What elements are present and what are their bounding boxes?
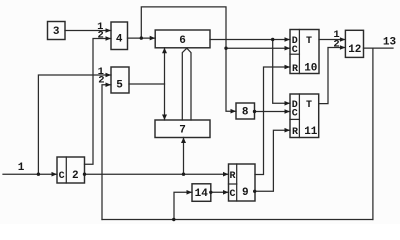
- wire A block6 output to block10 D: [210, 39, 290, 41]
- arrow into block4 in1: [106, 28, 112, 33]
- junction dot bottom wire: [172, 218, 175, 221]
- block 7: [155, 120, 210, 138]
- junction dot block8 out: [253, 110, 256, 113]
- block 2: [57, 157, 85, 183]
- svg-text:11: 11: [304, 126, 318, 138]
- svg-text:7: 7: [179, 124, 186, 136]
- wire block12 output 13: [364, 47, 394, 49]
- wire bottom branch to block14: [174, 192, 192, 219]
- svg-text:8: 8: [242, 107, 249, 119]
- wire block2 right top to block4 in2: [85, 39, 112, 165]
- wire A branch to block11 D: [273, 40, 290, 104]
- wire input1 to block5 in1: [38, 75, 111, 174]
- svg-text:5: 5: [116, 80, 123, 92]
- junction dot block2 out: [83, 173, 86, 176]
- svg-text:2: 2: [98, 74, 104, 86]
- wire B top tap to block10 C: [226, 47, 290, 49]
- block 10: [290, 30, 319, 74]
- wire bidirectional 6-7: [164, 48, 166, 120]
- arrow up into block7 bottom: [181, 138, 186, 144]
- arrow into block5 in1: [106, 73, 112, 78]
- block 9: [229, 164, 256, 201]
- arrow into block6 left: [150, 36, 156, 41]
- arrow into block2: [52, 172, 58, 177]
- wire block5 output to line 6-7: [129, 83, 165, 85]
- block 11: [290, 94, 319, 138]
- svg-text:6: 6: [179, 35, 186, 47]
- arrow up into block6 bottom: [162, 48, 167, 54]
- svg-text:13: 13: [383, 36, 397, 48]
- svg-text:2: 2: [98, 29, 104, 41]
- svg-text:4: 4: [116, 34, 123, 46]
- wire bottom feedback: [102, 219, 373, 221]
- svg-text:C: C: [292, 109, 298, 120]
- svg-text:2: 2: [333, 39, 339, 51]
- svg-text:14: 14: [195, 188, 209, 200]
- wire input 1: [3, 173, 57, 175]
- svg-text:R: R: [292, 64, 298, 75]
- wire block9 output to block11 R: [255, 130, 290, 191]
- svg-text:9: 9: [242, 187, 249, 199]
- svg-text:R: R: [292, 127, 298, 138]
- arrow into block12 in1: [340, 37, 346, 42]
- arrow into block12 in2: [340, 45, 346, 50]
- block 14: [192, 184, 211, 202]
- arrow into block4 in2: [106, 36, 112, 41]
- wire right vertical feedback: [372, 48, 374, 219]
- block 8: [236, 103, 255, 119]
- arrow into block14: [187, 190, 193, 195]
- arrow into block8: [231, 109, 237, 114]
- wire top route block4 out to block10 C and block8: [141, 7, 236, 111]
- wire block11 T to block12 in2: [319, 48, 346, 104]
- arrow down into block7 top: [162, 115, 167, 121]
- svg-text:12: 12: [348, 44, 361, 56]
- svg-text:T: T: [306, 100, 312, 111]
- junction dot block9 out: [253, 190, 256, 193]
- wire block8 output to block11 C: [255, 111, 291, 113]
- arrow into block11 R: [285, 128, 291, 133]
- svg-text:1: 1: [18, 162, 25, 174]
- wire block4 output to block6: [128, 37, 156, 39]
- junction dot wireA tap: [271, 38, 274, 41]
- arrow into block10 C: [285, 46, 291, 51]
- wire block2 output to block9 R: [85, 173, 229, 175]
- svg-text:2: 2: [72, 170, 79, 182]
- block 12: [345, 30, 363, 57]
- arrow into block10 D: [285, 37, 291, 42]
- arrow into block11 D: [285, 101, 291, 106]
- bus double line 7 to 6: [182, 48, 187, 120]
- wire branch up to block7 bottom: [183, 138, 185, 175]
- wire block10 T to block12 in1: [319, 39, 345, 41]
- wire block14 output to block9 C: [211, 191, 229, 193]
- svg-text:C: C: [292, 45, 298, 56]
- wire block3 to block4 in1: [65, 30, 111, 32]
- junction dot branch block7: [182, 173, 185, 176]
- junction dot block4 out: [140, 36, 143, 39]
- block 6: [155, 30, 210, 48]
- svg-text:R: R: [229, 171, 235, 182]
- arrow into block5 in2: [106, 82, 112, 87]
- junction dot input1: [37, 173, 40, 176]
- junction dot block14 out: [209, 191, 212, 194]
- svg-text:C: C: [59, 171, 65, 182]
- wire left vertical to block5 in2: [102, 85, 111, 220]
- wire block9 top tap to block10 R: [255, 67, 290, 175]
- block 3: [48, 22, 66, 40]
- svg-text:10: 10: [304, 63, 317, 75]
- arrow into block11 C: [285, 109, 291, 114]
- block 5: [111, 67, 129, 93]
- arrow into block9 R: [223, 172, 229, 177]
- svg-text:3: 3: [53, 26, 60, 38]
- junction dot wireB tap: [224, 47, 227, 50]
- arrow into block10 R: [285, 65, 291, 70]
- arrow into block9 C: [223, 190, 229, 195]
- svg-text:C: C: [229, 189, 235, 200]
- svg-text:T: T: [306, 36, 312, 47]
- block 4: [111, 22, 128, 50]
